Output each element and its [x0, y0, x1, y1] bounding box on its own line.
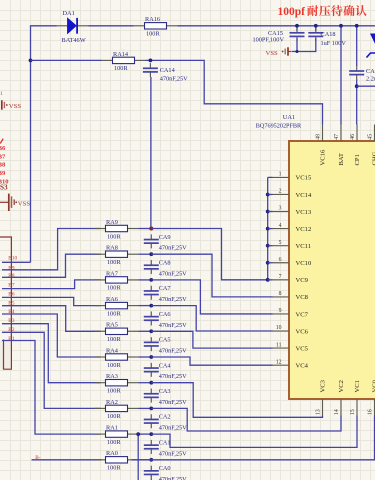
wire RA0 right to cell node [139, 459, 152, 461]
wire bus stub to pin 4 [268, 228, 273, 230]
pin 13 (VC3) [322, 399, 324, 416]
svg-text:BAT46W: BAT46W [62, 37, 86, 44]
svg-text:B8: B8 [0, 162, 6, 169]
wire: CP1 node to right edge [357, 85, 375, 87]
svg-text:B9: B9 [8, 265, 15, 271]
svg-text:100R: 100R [114, 65, 128, 72]
junction CA15/BAT rail [295, 24, 299, 28]
svg-text:16: 16 [368, 409, 374, 415]
svg-text:B7: B7 [8, 283, 15, 289]
svg-text:VC14: VC14 [296, 192, 312, 199]
wire RA1 right to cell node [139, 433, 152, 435]
junction cell node 7 [149, 278, 153, 282]
capacitor CA16 [349, 66, 364, 80]
junction CA14 tap [149, 59, 153, 63]
TVS diode (top right, mostly cut at edge) [367, 34, 375, 58]
svg-text:1: 1 [279, 172, 282, 178]
power port VSS (top caps) [282, 47, 291, 55]
wire: CA14 bottom to cell-9 node [150, 77, 152, 229]
wire: ground link horizontal [292, 38, 316, 51]
wire B6 [2, 297, 101, 305]
wire bus stub to pin 3 [268, 211, 273, 213]
pin 46 (CP1) [356, 125, 358, 142]
svg-text:VC0: VC0 [371, 379, 375, 392]
wire bus stub to pin 6 [268, 262, 273, 264]
svg-text:CA8: CA8 [159, 259, 171, 266]
svg-text:VC11: VC11 [296, 243, 312, 250]
resistor RA14 [102, 57, 146, 63]
capacitor CA15 [290, 28, 305, 42]
junction cell node 2 [149, 407, 153, 411]
svg-text:B7: B7 [0, 154, 6, 161]
wire B7 [2, 280, 101, 289]
junction BAT wire [339, 24, 343, 28]
pin 11 (VC5) [273, 347, 290, 349]
wire: RA14 row from rail [31, 59, 102, 61]
wire: B10 rail top segment [31, 26, 57, 262]
svg-text:4: 4 [279, 223, 282, 229]
svg-text:470nF,25V: 470nF,25V [159, 296, 187, 303]
pin 1 (VC15) [273, 176, 290, 178]
svg-text:470nF,25V: 470nF,25V [159, 450, 187, 457]
junction CP1 node [355, 84, 359, 88]
wire: BAT rail (RA16 to right edge) [178, 25, 375, 27]
wire: RA14 out to VC16 pin 48 [146, 60, 323, 124]
pin 6 (VC10) [273, 262, 290, 264]
wire RA9 right to cell node [139, 228, 152, 230]
svg-text:1uF 100V: 1uF 100V [321, 40, 347, 47]
svg-text:470nF,25V: 470nF,25V [159, 425, 187, 432]
svg-text:RA14: RA14 [113, 51, 129, 58]
pin 9 (VC7) [273, 313, 290, 315]
svg-text:2.2u: 2.2u [366, 76, 375, 83]
capacitor CA18 [308, 28, 323, 42]
wire: CA16 bottom / CP1 node [356, 80, 358, 125]
junction cell node 8 [149, 252, 153, 256]
pin 47 (BAT) [340, 125, 342, 142]
svg-text:47: 47 [334, 134, 340, 140]
svg-text:5: 5 [279, 240, 282, 246]
wire B1 [2, 341, 101, 435]
resistor RA16 [134, 23, 178, 29]
svg-text:B9: B9 [0, 170, 6, 177]
wire RA6 right to cell node [139, 305, 152, 307]
resistor RA4 [95, 354, 139, 360]
svg-text:46: 46 [350, 134, 356, 140]
svg-text:12: 12 [276, 359, 282, 365]
wire B5 [2, 306, 101, 332]
svg-text:RA6: RA6 [106, 296, 118, 303]
svg-text:CA6: CA6 [159, 311, 171, 318]
svg-text:1: 1 [0, 91, 3, 97]
pin 45 (CHG) [374, 125, 375, 142]
svg-text:100R: 100R [107, 285, 121, 292]
capacitor CA1 [144, 440, 159, 454]
svg-text:CA3: CA3 [159, 388, 171, 395]
svg-text:VC4: VC4 [296, 362, 309, 369]
junction ground link [296, 50, 299, 53]
capacitor CA2 [144, 414, 159, 428]
svg-text:CA5: CA5 [159, 337, 171, 344]
svg-text:CA7: CA7 [159, 285, 171, 292]
wire bus stub to pin 5 [268, 245, 273, 247]
wire bus stub to pin 2 [268, 193, 273, 195]
svg-text:100R: 100R [107, 413, 121, 420]
capacitor CA5 [144, 337, 159, 351]
svg-text:RA5: RA5 [106, 322, 118, 329]
pin 15 (VC1) [356, 399, 358, 416]
pin 10 (VC6) [273, 330, 290, 332]
wire B8 [2, 254, 101, 277]
svg-text:VC7: VC7 [296, 311, 309, 318]
svg-text:VSS: VSS [266, 50, 279, 57]
svg-text:UA1: UA1 [283, 114, 295, 121]
svg-text:VC3: VC3 [319, 379, 326, 392]
resistor RA5 [95, 328, 139, 334]
capacitor CA8 [144, 260, 159, 274]
pin 5 (VC11) [273, 245, 290, 247]
wire cell node 6 to pin 9 [151, 306, 272, 331]
power port VSS (mid left) [0, 194, 17, 211]
svg-text:RA4: RA4 [106, 347, 119, 354]
svg-text:RA0: RA0 [106, 450, 118, 457]
pin 4 (VC12) [273, 228, 290, 230]
wire B2 [2, 332, 101, 408]
svg-text:B8: B8 [8, 273, 15, 279]
wire: CA15 lead from BAT rail [296, 26, 298, 31]
wire bus stub to pin 7 [268, 279, 273, 281]
svg-text:RA2: RA2 [106, 399, 118, 406]
junction cell node 5 [149, 329, 153, 333]
svg-text:DA1: DA1 [63, 10, 75, 17]
wire cell node 3 to pin 13 [151, 383, 322, 418]
svg-text:100R: 100R [107, 259, 121, 266]
svg-text:BAT: BAT [338, 153, 345, 165]
svg-text:CA1: CA1 [159, 439, 171, 446]
junction cell node 0 [149, 458, 153, 462]
svg-text:CA18: CA18 [321, 31, 336, 38]
svg-text:100R: 100R [107, 233, 121, 240]
junction bus pin 6 [266, 261, 270, 265]
svg-text:6: 6 [279, 257, 282, 263]
junction cell node 9 (red) [149, 227, 153, 231]
diode DA1 [57, 18, 89, 34]
pin 8 (VC8) [273, 296, 290, 298]
svg-text:VSS: VSS [9, 103, 22, 110]
wire bus stub to pin 1 [268, 176, 273, 178]
wire: CA16 lead from BAT rail [356, 26, 358, 66]
wire CA0 bottom lead [150, 478, 152, 481]
wire cell node 5 to pin 11 [151, 331, 272, 348]
svg-text:B6: B6 [0, 145, 6, 152]
capacitor CA6 [144, 311, 159, 325]
svg-text:7: 7 [279, 274, 282, 280]
svg-text:100R: 100R [107, 310, 121, 317]
svg-text:470nF,25V: 470nF,25V [159, 373, 187, 380]
wire RA7 right to cell node [139, 279, 152, 281]
chinese note 100pf耐压待确认 [278, 5, 367, 18]
pin 2 (VC14) [273, 193, 290, 195]
wire RA3 right to cell node [139, 382, 152, 384]
junction cell node 1 [149, 432, 153, 436]
svg-text:RA9: RA9 [106, 219, 118, 226]
svg-text:9: 9 [279, 308, 282, 314]
op-amp/afe IC UA1 body [289, 141, 375, 399]
svg-text:RA8: RA8 [106, 245, 118, 252]
junction cell node 6 [149, 304, 153, 308]
junction bus pin 3 [266, 210, 270, 214]
svg-text:CA1: CA1 [366, 68, 375, 75]
svg-text:VC15: VC15 [296, 175, 312, 182]
svg-text:CA2: CA2 [159, 414, 171, 421]
resistor RA9 [95, 225, 139, 231]
svg-text:VC8: VC8 [296, 294, 309, 301]
resistor RA0 [95, 457, 139, 463]
svg-text:470nF,25V: 470nF,25V [159, 476, 187, 480]
svg-text:8: 8 [279, 291, 282, 297]
svg-text:470nF,25V: 470nF,25V [159, 322, 187, 329]
svg-text:11: 11 [276, 342, 282, 348]
wire cell node 4 to pin 12 [151, 357, 272, 365]
svg-text:S3: S3 [0, 184, 8, 192]
wire cell node 2 to pin 14 [151, 408, 341, 431]
wire cell node 8 to pin 7 [151, 254, 272, 297]
wire B10 [2, 261, 31, 263]
brown wire (left, other net) [0, 237, 11, 369]
resistor RA3 [95, 380, 139, 386]
svg-text:14: 14 [334, 409, 340, 415]
power port VSS (upper left) [2, 100, 8, 109]
bus vertical pins 1-7 [267, 177, 269, 279]
capacitor CA7 [144, 286, 159, 300]
svg-text:2: 2 [279, 189, 282, 195]
junction cell node 3 [149, 381, 153, 385]
svg-text:VSS: VSS [18, 201, 31, 208]
svg-text:100R: 100R [146, 31, 160, 38]
svg-text:VC10: VC10 [296, 260, 312, 267]
svg-text:470nF,25V: 470nF,25V [159, 270, 187, 277]
wire cell node 7 to pin 9 [151, 280, 272, 314]
wire B9 [2, 229, 101, 270]
svg-text:VC2: VC2 [338, 380, 345, 392]
wire B- [32, 459, 102, 461]
svg-text:100R: 100R [107, 362, 121, 369]
svg-text:100R: 100R [107, 388, 121, 395]
svg-text:BQ7695202PFBR: BQ7695202PFBR [256, 123, 302, 130]
svg-text:VC9: VC9 [296, 277, 309, 284]
svg-text:CA0: CA0 [159, 465, 171, 472]
svg-text:CA4: CA4 [159, 362, 172, 369]
svg-text:13: 13 [316, 409, 322, 415]
svg-text:RA3: RA3 [106, 373, 118, 380]
resistor RA8 [95, 251, 139, 257]
junction bus pin 7 [266, 278, 270, 282]
cut net labels B6-B10 (left edge, bright red) [0, 139, 9, 186]
pin 16 (VC0) [374, 399, 375, 416]
svg-text:VC12: VC12 [296, 226, 312, 233]
svg-text:3: 3 [279, 206, 282, 212]
svg-text:45: 45 [368, 134, 374, 140]
svg-text:100pf: 100pf [278, 6, 306, 18]
junction node1 sense [136, 432, 140, 436]
junction bus pin 2 [266, 193, 270, 197]
junction bus pin 5 [266, 244, 270, 248]
resistor RA1 [95, 431, 139, 437]
capacitor CA0 [144, 466, 159, 480]
junction CA18/BAT rail [314, 24, 318, 28]
capacitor CA14 [143, 63, 158, 77]
svg-text:100R: 100R [107, 465, 121, 472]
svg-text:470nF,25V: 470nF,25V [159, 245, 187, 252]
wire B4 [2, 314, 101, 357]
resistor RA6 [95, 302, 139, 308]
junction bus pin 4 [266, 227, 270, 231]
sheet-cut gray area (bottom left) [0, 340, 11, 369]
svg-text:CA14: CA14 [160, 67, 176, 74]
wire RA4 right to cell node [139, 356, 152, 358]
svg-text:VC5: VC5 [296, 345, 309, 352]
svg-text:15: 15 [350, 409, 356, 415]
svg-text:100R: 100R [107, 439, 121, 446]
svg-text:RA1: RA1 [106, 425, 118, 432]
wire RA2 right to cell node [139, 407, 152, 409]
junction CA16/BAT rail [355, 24, 359, 28]
wire node9 to VC9-VC15 bus [151, 229, 267, 280]
svg-text:VC6: VC6 [296, 328, 309, 335]
wire cell node 1 to pin 15 [151, 416, 357, 448]
wire: CA15/CA18 ground link [296, 38, 298, 51]
junction at B10 rail / RA14 row [29, 59, 33, 63]
pin 14 (VC2) [340, 399, 342, 416]
wire RA8 right to cell node [139, 253, 152, 255]
svg-text:RA7: RA7 [106, 270, 118, 277]
pin 12 (VC4) [273, 364, 290, 366]
svg-text:470nF,25V: 470nF,25V [159, 347, 187, 354]
svg-text:10: 10 [276, 325, 282, 331]
wire DA1 to RA16 [89, 25, 134, 27]
wire RA5 right to cell node [139, 330, 152, 332]
svg-text:100R: 100R [107, 336, 121, 343]
svg-text:100PF,100V: 100PF,100V [252, 37, 284, 44]
capacitor CA9 [144, 234, 159, 248]
svg-text:470nF,25V: 470nF,25V [160, 75, 188, 82]
pin 48 (VC16) [322, 125, 324, 142]
svg-text:VC1: VC1 [354, 380, 361, 392]
wire B3 [2, 324, 101, 383]
svg-text:RA16: RA16 [145, 16, 160, 23]
resistor RA2 [95, 405, 139, 411]
svg-text:VC16: VC16 [320, 149, 327, 165]
svg-text:VC13: VC13 [296, 209, 312, 216]
capacitor CA3 [144, 389, 159, 403]
svg-text:CP1: CP1 [354, 154, 361, 165]
svg-text:470nF,25V: 470nF,25V [159, 399, 187, 406]
svg-text:B10: B10 [8, 256, 17, 262]
wire: BAT rail to pin 47 [340, 26, 342, 125]
svg-text:48: 48 [316, 134, 322, 140]
wire cell node 0 / B- row to pin 16 [132, 416, 375, 460]
capacitor CA4 [144, 363, 159, 377]
resistor RA7 [95, 277, 139, 283]
pin 3 (VC13) [273, 211, 290, 213]
wire: CA18 lead from BAT rail [315, 26, 317, 31]
wire node1 sense drop [137, 434, 139, 480]
svg-text:CA9: CA9 [159, 234, 171, 241]
junction cell node 4 [149, 355, 153, 359]
pin 7 (VC9) [273, 279, 290, 281]
